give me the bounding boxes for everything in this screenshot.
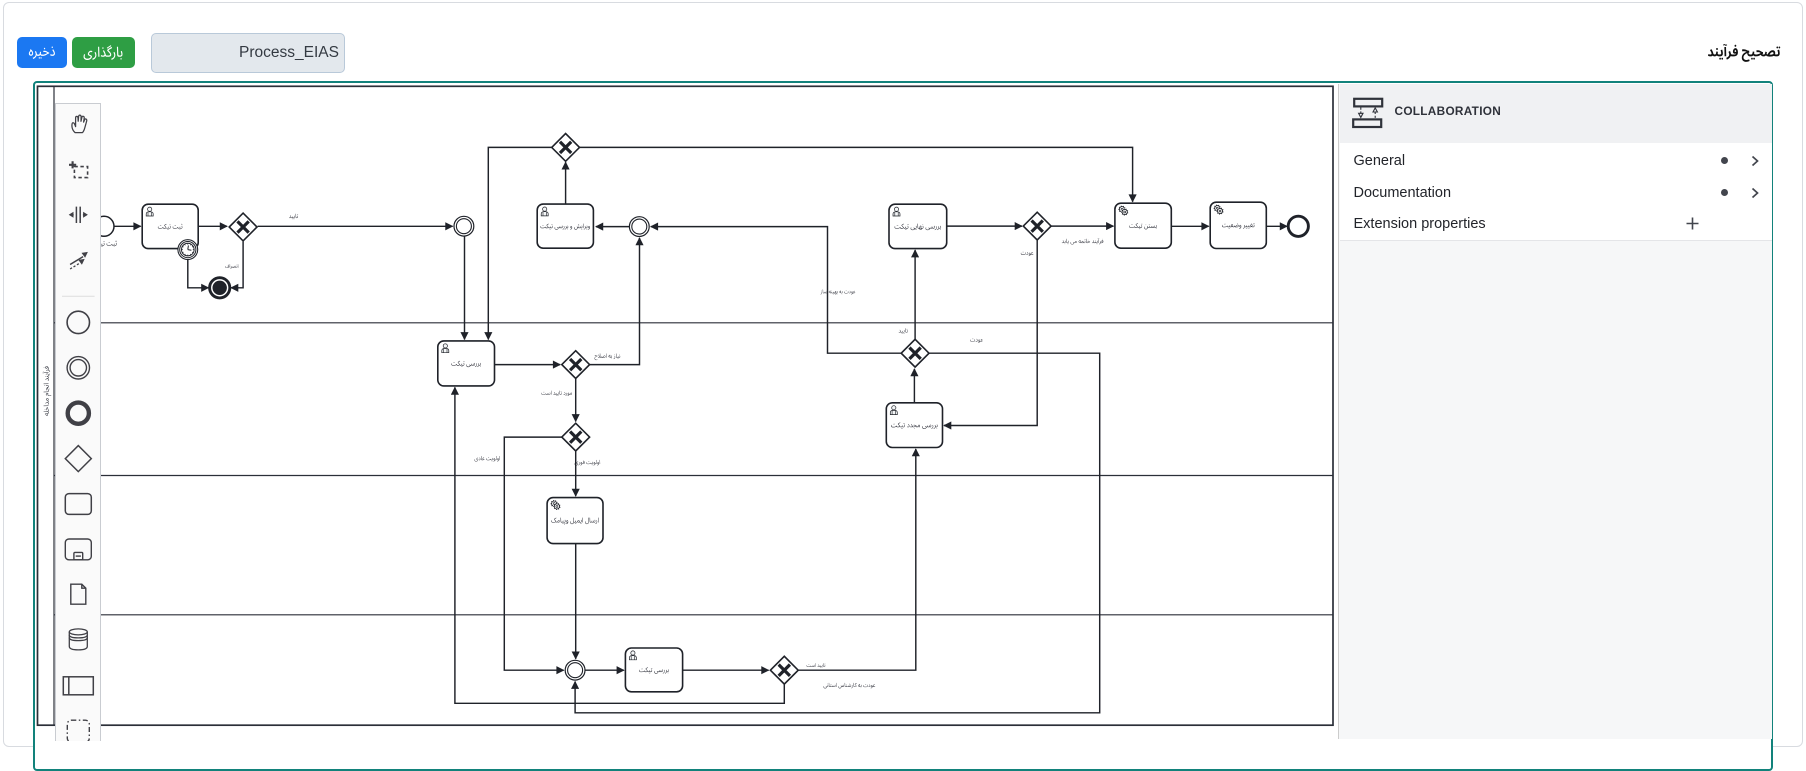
gateway G1 [552, 134, 580, 162]
lane divider 1 [54, 322, 1333, 324]
wire barrasi5 to GW6 [683, 669, 769, 671]
label farayand khateme miyabad [1062, 238, 1103, 244]
task barrasi ticket lane2 [438, 341, 495, 386]
palette global connect tool [70, 252, 88, 269]
intermediate event before barrasi [454, 216, 474, 236]
collaboration icon [1353, 98, 1382, 126]
wire G1 right down to bastan [579, 147, 1132, 201]
wire GW6 right up to mojadad [799, 449, 916, 670]
wire circle2 to virayesh [596, 226, 630, 228]
palette create end event [67, 403, 88, 424]
palette create data object [70, 584, 85, 604]
label tayid on GW0 flow [289, 214, 298, 219]
wire sabt to GW0 [198, 225, 227, 227]
start label [91, 241, 117, 247]
task taghir vaziat [1210, 202, 1266, 248]
label tayid ast [807, 663, 826, 668]
wire mojadad up to G5 [913, 369, 915, 403]
pool label band line [53, 86, 55, 725]
wire virayesh up to G1 [565, 162, 567, 204]
label niaz be eslah [595, 354, 621, 361]
label odat be behine saz [821, 289, 856, 294]
task bastan ticket [1115, 203, 1171, 248]
intermediate event lane5 join [565, 660, 585, 680]
gateway G2 [562, 351, 590, 379]
palette separator [62, 295, 95, 297]
page title (Persian) [1703, 40, 1785, 66]
end event end [1288, 216, 1308, 236]
palette create gateway [65, 446, 91, 472]
wire G3 down to ersal [575, 451, 577, 496]
wire GW0 to circle1 (tayid) [258, 225, 453, 227]
gateway G5 [901, 339, 929, 367]
wire G5 up to nahayi [914, 250, 916, 339]
task virayesh va barrasi [537, 204, 593, 248]
palette create start event [67, 311, 89, 333]
timer boundary event on sabt [178, 240, 198, 260]
panel row: General [1340, 143, 1772, 178]
wire taghir to end2 [1266, 225, 1287, 227]
wire GW0 to end ensraf [231, 242, 243, 288]
task ersal email [547, 498, 603, 544]
wire G5 left up to circle2 (odat be behine saz) [651, 227, 901, 354]
wire G4 to bastan [1051, 225, 1113, 227]
label odat at G5 right [970, 339, 983, 343]
task barrasi mojadad [886, 403, 942, 448]
wire G3 left to circle5 [504, 437, 563, 670]
task barrasi ticket lane5 [625, 648, 682, 692]
palette create task [65, 494, 91, 515]
properties panel [1338, 84, 1772, 739]
palette create subprocess [65, 539, 91, 560]
panel row: Documentation [1340, 178, 1772, 208]
label odat be karshenas [824, 683, 876, 688]
panel row: Extension properties [1340, 207, 1772, 241]
label ensraf [225, 264, 238, 269]
palette space tool [68, 207, 87, 223]
wire nahayi to G4 [947, 225, 1022, 227]
palette hand tool [71, 115, 86, 133]
palette create pool [63, 677, 93, 695]
wire timer to end ensraf [188, 259, 209, 288]
lane divider 3 [54, 614, 1333, 616]
task sabt ticket [142, 204, 198, 248]
palette create data store [69, 629, 87, 650]
top bar: load button [72, 37, 134, 68]
wire circle5 to barrasi5 [586, 669, 624, 671]
palette create group [67, 720, 89, 742]
top bar: process name input [151, 33, 345, 73]
pool label [43, 366, 52, 415]
wire bastan to taghir [1171, 225, 1208, 227]
palette [55, 103, 102, 742]
wire G1 left down to barrasi [488, 147, 552, 339]
start event sabt ticket start [94, 216, 114, 236]
wire G4 down to mojadad right [944, 240, 1037, 425]
gateway GW0 [229, 213, 257, 241]
intermediate event before virayesh [629, 217, 649, 237]
wire G2 down to G3 [575, 379, 577, 422]
panel header [1340, 84, 1772, 145]
wire GW6 down left up to barrasi (odat karshenas) [455, 387, 784, 703]
wire G5 right down to circle5 (odat) [575, 353, 1100, 713]
wire start to sabt [114, 225, 141, 227]
task barrasi nahayi [889, 204, 947, 248]
top bar: save button [17, 37, 67, 68]
label olaviat adi [475, 456, 500, 461]
gateway G4 [1023, 212, 1051, 240]
palette create intermediate event [67, 357, 89, 379]
wire G2 to circle2 [590, 238, 640, 365]
lane divider 2 [54, 475, 1333, 477]
wire barrasi to G2 [495, 364, 561, 366]
pool participant [38, 86, 1334, 725]
wire ersal down to circle5 [575, 544, 577, 659]
label olaviat fori [575, 460, 600, 465]
end event ensraf [210, 278, 230, 298]
gateway GW6 [770, 656, 798, 684]
label tayid at G5 [899, 328, 908, 333]
wire circle1 down to barrasi [464, 236, 466, 339]
label mored tayid ast [541, 391, 572, 396]
label odat at G4 [1021, 252, 1034, 256]
gateway G3 [562, 423, 590, 451]
palette lasso tool [69, 161, 88, 177]
